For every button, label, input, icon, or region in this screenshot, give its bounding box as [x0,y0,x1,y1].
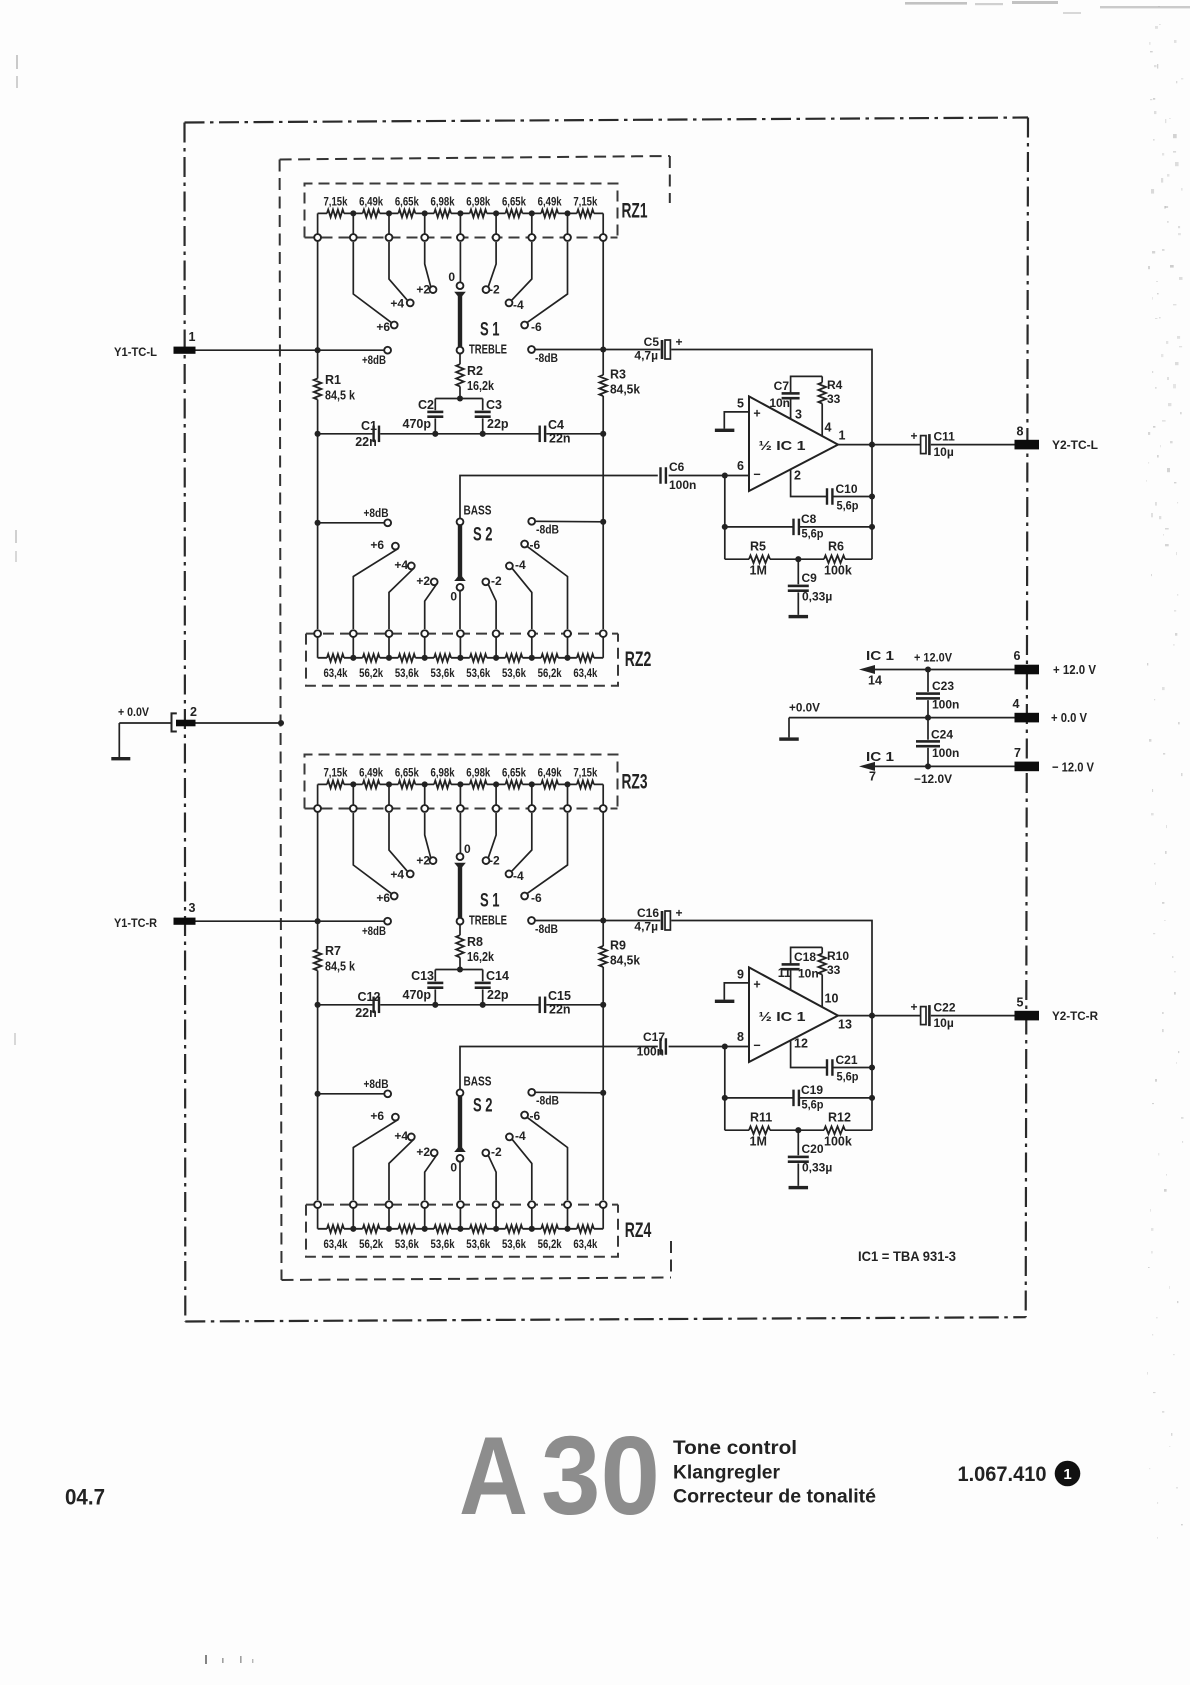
svg-text:-6: -6 [530,1109,541,1123]
wire R2 to cap bar [435,957,482,969]
wire tap to -2 contact [488,242,496,287]
wire 0V supply line [789,717,1015,719]
svg-text:S 2: S 2 [473,525,493,546]
svg-text:22p: 22p [487,988,509,1002]
svg-text:R9: R9 [610,939,626,953]
svg-text:+4: +4 [390,297,404,311]
svg-text:C20: C20 [802,1142,824,1156]
svg-text:−: − [753,468,760,482]
wire -2 contact to RZ tap [488,585,496,629]
svg-text:+: + [753,978,760,992]
switch S2 contact +8dB [384,519,391,526]
svg-text:TREBLE: TREBLE [469,913,507,928]
capacitor C16 4,7µ [661,911,664,930]
svg-text:R4: R4 [827,378,843,392]
svg-text:6,65k: 6,65k [502,765,526,779]
svg-text:Correcteur de tonalité: Correcteur de tonalité [673,1487,876,1508]
svg-text:½ IC 1: ½ IC 1 [759,439,806,453]
wire wiper to R2 [459,354,461,365]
resistor RZ2-1 63,4k [318,657,354,659]
wire tap to -4 contact [511,813,531,872]
svg-text:C17: C17 [643,1030,665,1044]
svg-text:C24: C24 [931,728,953,742]
svg-text:½ IC 1: ½ IC 1 [759,1010,806,1024]
svg-text:+8dB: +8dB [364,506,389,520]
svg-text:6,49k: 6,49k [359,765,383,779]
arrow to IC1 pin 7 [859,762,875,771]
capacitor C21 5,6p [826,1059,828,1076]
svg-text:+0.0V: +0.0V [789,701,820,715]
junction inverting node [722,472,728,478]
wire +4 contact to RZ tap [389,568,414,629]
resistor RZ3-5 6,98k [460,783,496,785]
terminal circle [564,1201,571,1208]
svg-text:Y1-TC-R: Y1-TC-R [114,916,157,930]
switch S2 contact 0 [457,1155,464,1162]
svg-text:6,65k: 6,65k [395,194,419,208]
wire tap to -2 contact [488,813,496,858]
svg-text:+8dB: +8dB [362,924,386,938]
switch S1 wiper left [454,292,466,298]
switch S1 contact 0 [457,282,464,289]
junction [315,431,321,437]
wire RZ2 tap 7 [531,637,533,658]
wire RZ4 tap 5 [459,1208,461,1229]
switch S2 contact -6 [521,541,528,548]
terminal circle [600,630,607,637]
wire -12.0V supply line [874,765,1015,767]
resistor RZ3-7 6,49k [532,783,568,785]
switch S1 contact -2 [483,286,490,293]
terminal circle [457,234,464,241]
svg-text:C18: C18 [794,950,816,964]
svg-text:TREBLE: TREBLE [469,342,507,357]
resistor RZ4-6 53,6k [496,1228,532,1230]
resistor R10 33 [821,947,823,1007]
svg-text:5,6p: 5,6p [837,499,859,513]
svg-text:63,4k: 63,4k [573,666,597,680]
svg-text:+: + [676,906,683,920]
svg-text:2: 2 [190,705,197,719]
svg-text:53,6k: 53,6k [431,666,455,680]
svg-text:C23: C23 [932,679,954,693]
wire RZ3 tap 7 [531,784,533,805]
resistor RZ4-7 56,2k [532,1228,568,1230]
wire RZ2 tap 4 [424,637,426,658]
switch S2 wiper right [454,1147,466,1153]
terminal circle [528,805,535,812]
svg-text:100k: 100k [824,1135,852,1149]
svg-text:C5: C5 [644,335,660,349]
wire tap to 0 contact [459,813,461,853]
terminal 8 output [1015,440,1040,450]
resistor R5 1M [725,558,799,560]
wire RZ4 tap 1 [317,1208,319,1229]
wire right rail with resistor R3 [602,241,604,629]
switch S1 contact -6 [521,893,528,900]
svg-text:6,98k: 6,98k [466,765,490,779]
svg-text:0: 0 [450,1161,457,1175]
terminal 2 0V [172,713,177,731]
svg-text:-8dB: -8dB [536,523,559,537]
svg-text:C22: C22 [934,1001,956,1015]
svg-text:-6: -6 [530,538,541,552]
junction [457,395,463,401]
wire -8dB to feedback rail [535,921,872,1131]
svg-text:S 1: S 1 [480,320,500,341]
svg-text:+6: +6 [370,1109,384,1123]
switch S2 contact +4 [408,1134,415,1141]
wire left rail to S2 +8dB [318,522,385,524]
switch S2 contact +2 [431,578,438,585]
terminal circle [493,234,500,241]
resistor R3 84,5k [599,375,607,396]
wire +6 contact to RZ tap [353,548,398,629]
terminal circle [457,805,464,812]
resistor R2 16,2k [456,364,464,386]
svg-text:6,49k: 6,49k [538,765,562,779]
capacitor C18 10n [791,947,823,990]
svg-text:63,4k: 63,4k [323,1237,347,1251]
svg-text:-2: -2 [491,1145,502,1159]
svg-text:S 2: S 2 [473,1096,493,1117]
junction [432,431,438,437]
svg-text:84,5k: 84,5k [610,954,640,968]
svg-text:470p: 470p [403,417,432,431]
switch S2 contact +6 [392,1114,399,1121]
terminal circle [600,1201,607,1208]
terminal circle [314,234,321,241]
wire RZ3 tap 5 [459,784,461,805]
svg-text:+: + [910,429,917,443]
svg-text:10µ: 10µ [934,1016,954,1030]
svg-text:+: + [910,1000,917,1014]
svg-text:16,2k: 16,2k [467,379,494,393]
svg-text:-4: -4 [515,1129,526,1143]
svg-text:R6: R6 [828,540,844,554]
terminal circle [350,630,357,637]
wire RZ2 tap 9 [602,637,604,658]
terminal circle [528,234,535,241]
svg-text:-2: -2 [491,574,502,588]
capacitor C23 100n [927,670,929,718]
svg-text:-4: -4 [513,298,524,312]
svg-text:53,6k: 53,6k [395,666,419,680]
svg-text:Y2-TC-L: Y2-TC-L [1052,438,1098,452]
resistor RZ3-8 7,15k [568,783,604,785]
svg-text:-6: -6 [531,891,542,905]
svg-text:10µ: 10µ [934,445,954,459]
resistor RZ4-4 53,6k [425,1228,461,1230]
wire RZ3 tap 1 [317,784,319,805]
svg-text:1: 1 [1063,1466,1071,1483]
resistor RZ1-1 7,15k [318,212,354,214]
svg-text:22n: 22n [549,1003,571,1017]
resistor network RZ2 box [306,634,618,686]
terminal circle [457,1201,464,1208]
svg-text:C13: C13 [411,969,434,983]
resistor RZ1-7 6,49k [532,212,568,214]
resistor network RZ4 box [306,1205,618,1257]
terminal 6 [1015,665,1040,675]
terminal circle [493,805,500,812]
capacitor C12 22n [372,997,374,1014]
svg-text:5: 5 [737,397,744,411]
svg-text:2: 2 [794,469,801,483]
junction [722,524,728,530]
svg-text:+ 12.0V: + 12.0V [914,651,952,665]
switch S1 contact +2 [430,857,437,864]
svg-text:IC 1: IC 1 [866,649,894,663]
resistor R12 100k [798,1129,872,1131]
svg-text:7,15k: 7,15k [573,194,597,208]
switch S1 contact -8dB [528,917,535,924]
switch S2 contact +6 [392,543,399,550]
svg-text:R5: R5 [750,540,766,554]
wire RZ1 tap 7 [531,213,533,234]
junction [600,519,606,525]
wire -2 contact to RZ tap [488,1156,496,1200]
junction [457,966,463,972]
resistor network RZ3 box [305,755,618,809]
switch S2 pivot [457,1089,464,1096]
svg-text:-6: -6 [531,320,542,334]
capacitor C24 100n [927,718,929,767]
svg-text:R7: R7 [325,944,341,958]
pin 1 output [838,444,920,446]
terminal circle [314,1201,321,1208]
resistor RZ2-5 53,6k [460,657,496,659]
wire RZ4 tap 4 [424,1208,426,1229]
wire RZ1 tap 3 [388,213,390,234]
svg-text:53,6k: 53,6k [502,1237,526,1251]
wire +12.0V supply line [874,669,1015,671]
ground [789,615,809,618]
wire RZ1 tap 2 [352,213,354,234]
resistor RZ1-8 7,15k [568,212,604,214]
junction [869,524,875,530]
svg-text:8: 8 [1017,425,1024,439]
svg-text:100n: 100n [932,698,959,712]
switch S1 contact -6 [521,322,528,329]
switch S2 pivot [457,518,464,525]
junction output node [869,1013,875,1019]
wire tap to +2 contact [425,242,431,287]
wire +6 contact to RZ tap [353,1119,398,1200]
svg-text:33: 33 [827,963,841,977]
svg-text:RZ1: RZ1 [622,200,648,223]
switch S1 wiper right [454,863,466,869]
wire RZ4 tap 3 [388,1208,390,1229]
resistor RZ2-3 53,6k [389,657,425,659]
svg-text:C8: C8 [801,512,817,526]
wire R2 to cap bar [435,386,482,398]
ground [789,1186,809,1189]
wire RZ1 tap 9 [602,213,604,234]
junction [869,1095,875,1101]
svg-text:−: − [753,1039,760,1053]
switch S1 contact 0 [457,853,464,860]
svg-text:7,15k: 7,15k [573,765,597,779]
capacitor C6 100n [659,467,661,484]
terminal circle [314,805,321,812]
wire RZ3 tap 8 [567,784,569,805]
svg-text:56,2k: 56,2k [359,1237,383,1251]
switch S1 contact -8dB [528,346,535,353]
svg-text:13: 13 [838,1018,852,1032]
ground [715,1000,735,1003]
wire RZ3 tap 6 [495,784,497,805]
terminal circle [600,234,607,241]
terminal circle [564,234,571,241]
terminal 5 output [1015,1011,1040,1021]
capacitor C20 0,33µ [797,1130,799,1186]
svg-text:0: 0 [448,270,455,284]
svg-text:22p: 22p [487,417,509,431]
svg-text:-8dB: -8dB [535,922,558,936]
capacitor C11 10µ [921,436,926,454]
wire cap line [318,433,604,435]
svg-text:C6: C6 [669,460,685,474]
svg-text:1: 1 [839,429,846,443]
svg-text:C2: C2 [418,398,434,412]
svg-text:C19: C19 [801,1083,823,1097]
resistor R6 100k [798,558,872,560]
ground [788,718,790,738]
wire RZ1 tap 1 [317,213,319,234]
svg-text:-2: -2 [489,854,500,868]
svg-text:IC 1: IC 1 [866,750,894,764]
svg-text:7,15k: 7,15k [323,765,347,779]
wire 0 contact to RZ tap [459,591,461,630]
svg-text:7: 7 [1014,746,1021,760]
svg-text:6,98k: 6,98k [466,194,490,208]
svg-text:100n: 100n [932,746,959,760]
module boundary dash-dot border [185,118,1029,123]
svg-text:R10: R10 [827,949,849,963]
capacitor C22 10µ [921,1007,926,1025]
wire RZ3 tap 3 [388,784,390,805]
resistor RZ1-3 6,65k [389,212,425,214]
svg-text:S 1: S 1 [480,891,500,912]
switch S2 contact -8dB [528,1089,535,1096]
resistor RZ4-2 56,2k [353,1228,389,1230]
wire -4 contact to RZ tap [512,1139,532,1200]
junction [600,1090,606,1096]
terminal circle [386,234,393,241]
svg-text:56,2k: 56,2k [538,666,562,680]
terminal circle [457,630,464,637]
svg-text:63,4k: 63,4k [573,1237,597,1251]
wire left rail to S2 +8dB [318,1093,385,1095]
svg-text:5,6p: 5,6p [802,1098,824,1112]
wire inverting rail [724,476,726,560]
ground [715,429,735,432]
svg-text:56,2k: 56,2k [538,1237,562,1251]
pin 9 non-inverting input [724,983,749,1000]
wire RZ4 tap 8 [567,1208,569,1229]
resistor R8 16,2k [456,935,464,957]
resistor RZ3-2 6,49k [353,783,389,785]
terminal circle [350,234,357,241]
svg-text:0: 0 [450,590,457,604]
wire RZ2 tap 1 [317,637,319,658]
svg-text:C9: C9 [802,571,818,585]
resistor RZ1-6 6,65k [496,212,532,214]
capacitor C14 22p [482,970,484,982]
svg-text:C1: C1 [361,419,377,433]
svg-text:RZ2: RZ2 [625,648,652,671]
switch S2 contact -4 [506,1134,513,1141]
wire left rail with resistor R1 [317,241,319,629]
wire RZ4 tap 9 [602,1208,604,1229]
svg-text:6: 6 [1014,649,1021,663]
svg-text:6,49k: 6,49k [359,194,383,208]
svg-text:22n: 22n [549,432,571,446]
capacitor C7 10n [791,376,823,419]
svg-text:100n: 100n [669,478,696,492]
svg-text:53,6k: 53,6k [502,666,526,680]
terminal 3 input [174,918,196,925]
wire tap to +4 contact [389,242,408,301]
terminal 1 input [174,347,196,354]
wire RZ3 tap 4 [424,784,426,805]
wire -4 contact to RZ tap [512,568,532,629]
svg-text:12: 12 [794,1037,808,1051]
svg-text:30: 30 [541,1414,660,1538]
svg-text:4,7µ: 4,7µ [634,920,658,934]
capacitor C9 0,33µ [797,559,799,615]
wire left rail with resistor R7 [317,812,319,1200]
junction [315,520,321,526]
resistor RZ3-3 6,65k [389,783,425,785]
wire inverting rail [724,1047,726,1131]
terminal circle [350,1201,357,1208]
svg-text:10: 10 [825,992,839,1006]
junction [315,1002,321,1008]
svg-text:14: 14 [868,674,882,688]
svg-text:3: 3 [795,408,802,422]
svg-text:-4: -4 [515,558,526,572]
terminal circle [386,630,393,637]
svg-text:04.7: 04.7 [65,1485,105,1510]
svg-text:6,49k: 6,49k [538,194,562,208]
svg-text:+8dB: +8dB [362,353,386,367]
svg-text:1: 1 [189,330,196,344]
wire tap to 0 contact [459,242,461,282]
op-amp U IC1b [749,967,838,1062]
terminal 4 [1015,713,1040,723]
resistor RZ3-1 7,15k [318,783,354,785]
svg-text:22n: 22n [355,435,377,449]
capacitor C19 5,6p [725,1097,872,1099]
wire RZ1 tap 5 [459,213,461,234]
svg-text:0: 0 [464,842,471,856]
svg-text:C12: C12 [358,990,381,1004]
svg-text:A: A [459,1414,528,1538]
switch S1 contact +8dB [384,918,391,925]
svg-text:63,4k: 63,4k [323,666,347,680]
junction [925,715,931,721]
svg-text:R2: R2 [467,364,483,378]
svg-text:Tone control: Tone control [673,1438,797,1459]
svg-text:8: 8 [737,1030,744,1044]
svg-text:22n: 22n [355,1006,377,1020]
svg-text:+8dB: +8dB [364,1077,389,1091]
resistor RZ3-6 6,65k [496,783,532,785]
wire tap to -6 contact [527,813,567,893]
wire 0V stub [119,722,281,724]
